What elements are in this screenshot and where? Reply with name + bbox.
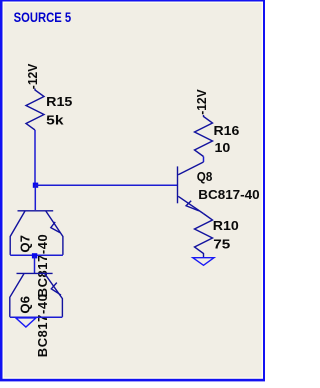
transistor Q6 xyxy=(10,273,63,357)
wire Q7 bottom xyxy=(10,254,63,256)
svg-text:R10: R10 xyxy=(213,218,239,233)
svg-text:75: 75 xyxy=(213,237,230,252)
svg-text:-12V: -12V xyxy=(25,63,40,89)
svg-text:Q6: Q6 xyxy=(18,296,33,314)
wire R15 bottom lead xyxy=(34,130,36,185)
svg-text:10: 10 xyxy=(215,140,231,155)
wire R16 to Q8 collector xyxy=(203,157,205,163)
svg-text:SOURCE 5: SOURCE 5 xyxy=(14,10,72,25)
node junction A xyxy=(33,183,38,188)
svg-text:BC817-40: BC817-40 xyxy=(198,187,259,202)
ground under Q6 xyxy=(16,318,36,327)
transistor Q8 xyxy=(178,162,260,214)
svg-text:Q8: Q8 xyxy=(197,169,213,184)
wire Q7 base xyxy=(34,185,36,210)
node junction B xyxy=(32,253,37,258)
wire horizontal to Q8 base xyxy=(35,184,178,186)
svg-text:-12V: -12V xyxy=(194,89,209,115)
svg-text:R16: R16 xyxy=(214,123,240,138)
svg-text:BC817-40: BC817-40 xyxy=(35,234,50,297)
resistor R10 xyxy=(195,214,239,258)
wire Q6 bottom xyxy=(10,316,63,318)
svg-text:5k: 5k xyxy=(46,113,64,128)
svg-text:Q7: Q7 xyxy=(18,235,33,253)
svg-text:BC817-40: BC817-40 xyxy=(35,294,50,357)
ground under R10 xyxy=(193,258,214,266)
wire Q6 base xyxy=(34,256,36,273)
svg-text:R15: R15 xyxy=(46,94,72,109)
resistor R16 xyxy=(195,115,240,157)
transistor Q7 xyxy=(10,211,63,297)
resistor R15 xyxy=(26,89,72,131)
